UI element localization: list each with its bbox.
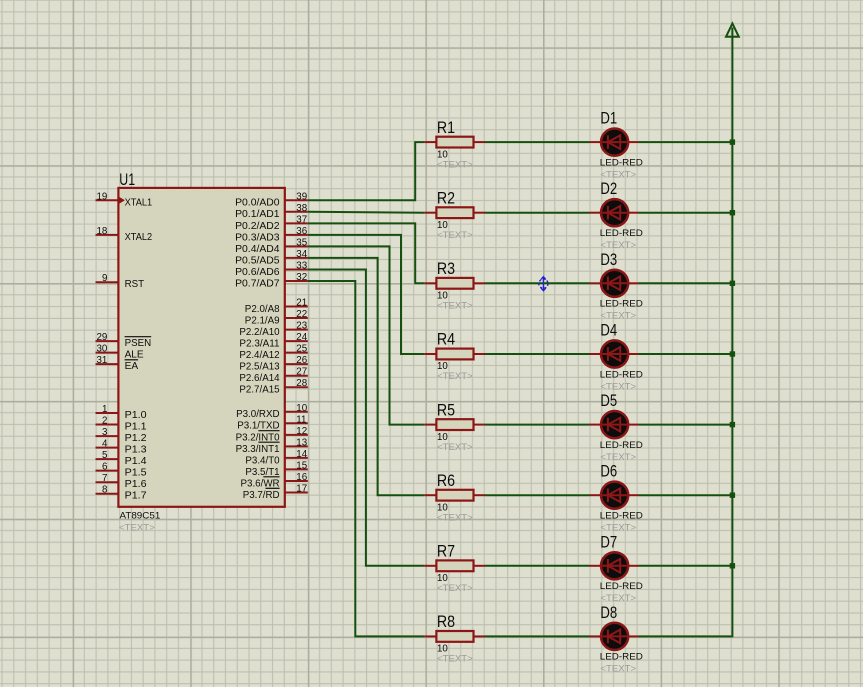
svg-text:P2.4/A12: P2.4/A12: [239, 350, 279, 361]
wire R6 to D6: [485, 494, 590, 496]
junction bus row D6: [730, 493, 735, 498]
svg-text:D7: D7: [600, 533, 617, 551]
resistor R7: [424, 560, 485, 571]
power terminal (VCC arrow): [726, 23, 739, 36]
U1 pin 3 (P1.2) stub: [96, 435, 119, 437]
resistor R6: [424, 490, 485, 501]
svg-text:<TEXT>: <TEXT>: [437, 230, 473, 241]
svg-text:P0.2/AD2: P0.2/AD2: [235, 221, 280, 232]
svg-text:EA: EA: [125, 361, 139, 372]
U1 pin 6 (P1.5) stub: [96, 470, 119, 472]
U1 pin 11 (P3.1/TXD) stub: [285, 422, 308, 424]
wire D6 to power bus: [639, 494, 733, 496]
svg-text:P0.1/AD1: P0.1/AD1: [235, 209, 280, 220]
U1 pin 15 (P3.5/T1) stub: [285, 468, 308, 470]
svg-text:<TEXT>: <TEXT>: [600, 523, 636, 534]
U1 pin 28 (P2.7/A15) stub: [285, 386, 308, 388]
svg-text:26: 26: [296, 355, 307, 366]
overline EA: [125, 359, 139, 361]
U1 pin 37 (P0.2/AD2) stub: [285, 222, 308, 224]
IC U1 AT89C51 body: [118, 188, 284, 507]
svg-text:<TEXT>: <TEXT>: [600, 452, 636, 463]
svg-text:19: 19: [96, 191, 107, 202]
U1 pin 2 (P1.1) stub: [96, 424, 119, 426]
svg-text:<TEXT>: <TEXT>: [437, 159, 473, 170]
svg-text:37: 37: [296, 214, 307, 225]
U1 pin 36 (P0.3/AD3) stub: [285, 234, 308, 236]
svg-text:8: 8: [102, 485, 108, 496]
wire R2 to D2: [485, 212, 590, 214]
svg-text:6: 6: [102, 462, 108, 473]
svg-text:P0.6/AD6: P0.6/AD6: [235, 267, 280, 278]
wire R3 to D3: [485, 282, 590, 284]
svg-text:R7: R7: [437, 543, 455, 561]
overline PSEN: [125, 336, 152, 338]
LED D1: [590, 129, 639, 156]
svg-text:P1.6: P1.6: [125, 479, 147, 490]
U1 pin 30 (ALE) stub: [96, 352, 119, 354]
wire power bus vertical: [639, 28, 733, 637]
svg-text:34: 34: [296, 249, 307, 260]
svg-text:25: 25: [296, 344, 307, 355]
svg-text:P0.0/AD0: P0.0/AD0: [235, 198, 280, 209]
wire P0.4 to R5: [308, 246, 424, 424]
wire D4 to power bus: [639, 353, 733, 355]
svg-text:<TEXT>: <TEXT>: [119, 523, 155, 534]
U1 pin 18 (XTAL2) stub: [96, 234, 119, 236]
LED D6: [590, 482, 639, 509]
svg-text:P3.0/RXD: P3.0/RXD: [236, 409, 280, 420]
svg-text:P3.3/INT1: P3.3/INT1: [236, 444, 280, 455]
wire D1 to power bus: [639, 141, 733, 143]
svg-text:P0.3/AD3: P0.3/AD3: [235, 232, 280, 243]
svg-text:P3.4/T0: P3.4/T0: [245, 455, 279, 466]
wire R1 to D1: [485, 141, 590, 143]
svg-text:13: 13: [296, 437, 307, 448]
svg-text:P1.4: P1.4: [125, 456, 147, 467]
svg-text:P1.5: P1.5: [125, 468, 147, 479]
U1 pin 22 (P2.1/A9) stub: [285, 317, 308, 319]
wire R8 to D8: [485, 635, 590, 637]
LED D8: [590, 623, 639, 650]
svg-text:36: 36: [296, 226, 307, 237]
svg-text:D4: D4: [600, 322, 617, 340]
U1 pin 7 (P1.6) stub: [96, 481, 119, 483]
U1 pin 33 (P0.6/AD6) stub: [285, 269, 308, 271]
svg-text:ALE: ALE: [125, 350, 144, 361]
wire D5 to power bus: [639, 424, 733, 426]
overline RD: [266, 487, 280, 489]
svg-text:R4: R4: [437, 331, 455, 349]
U1 pin 17 (P3.7/RD) stub: [285, 492, 308, 494]
svg-text:P2.0/A8: P2.0/A8: [245, 304, 280, 315]
U1 pin 23 (P2.2/A10) stub: [285, 329, 308, 331]
svg-text:U1: U1: [119, 171, 135, 189]
LED D7: [590, 552, 639, 579]
overline WR: [263, 476, 279, 478]
resistor R5: [424, 419, 485, 430]
svg-text:14: 14: [296, 449, 307, 460]
svg-text:38: 38: [296, 203, 307, 214]
svg-text:LED-RED: LED-RED: [600, 299, 643, 310]
svg-text:P0.7/AD7: P0.7/AD7: [235, 278, 280, 289]
svg-text:D5: D5: [600, 392, 617, 410]
wire P0.7 to R8: [308, 281, 424, 636]
U1 pin 27 (P2.6/A14) stub: [285, 375, 308, 377]
svg-text:R3: R3: [437, 260, 455, 278]
svg-text:16: 16: [296, 472, 307, 483]
svg-text:P1.7: P1.7: [125, 491, 147, 502]
svg-text:15: 15: [296, 460, 307, 471]
svg-text:<TEXT>: <TEXT>: [600, 381, 636, 392]
U1 pin 12 (P3.2/INT0) stub: [285, 434, 308, 436]
U1 pin 5 (P1.4) stub: [96, 458, 119, 460]
resistor R2: [424, 207, 485, 218]
svg-text:P3.1/TXD: P3.1/TXD: [237, 421, 279, 432]
svg-text:D3: D3: [600, 251, 617, 269]
svg-text:LED-RED: LED-RED: [600, 440, 643, 451]
wire R7 to D7: [485, 565, 590, 567]
svg-text:<TEXT>: <TEXT>: [437, 512, 473, 523]
svg-text:<TEXT>: <TEXT>: [600, 240, 636, 251]
svg-text:RST: RST: [125, 279, 145, 290]
svg-text:AT89C51: AT89C51: [120, 510, 161, 521]
svg-text:P1.3: P1.3: [125, 445, 147, 456]
svg-text:P1.0: P1.0: [125, 410, 147, 421]
svg-text:31: 31: [96, 355, 107, 366]
svg-text:<TEXT>: <TEXT>: [600, 664, 636, 675]
svg-text:P2.3/A11: P2.3/A11: [239, 339, 279, 350]
svg-text:LED-RED: LED-RED: [600, 511, 643, 522]
junction bus row D1: [730, 139, 735, 144]
U1 pin 1 (P1.0) stub: [96, 412, 119, 414]
LED D5: [590, 411, 639, 438]
svg-text:P1.1: P1.1: [125, 422, 147, 433]
svg-text:LED-RED: LED-RED: [600, 369, 643, 380]
svg-text:28: 28: [296, 378, 307, 389]
svg-text:2: 2: [102, 416, 107, 427]
U1 pin 14 (P3.4/T0) stub: [285, 457, 308, 459]
svg-text:21: 21: [296, 298, 307, 309]
wire R4 to D4: [485, 353, 590, 355]
U1 pin 24 (P2.3/A11) stub: [285, 340, 308, 342]
svg-text:23: 23: [296, 321, 307, 332]
svg-text:18: 18: [96, 226, 107, 237]
svg-text:10: 10: [296, 403, 307, 414]
wire P0.2 to R3: [308, 223, 424, 283]
wire D7 to power bus: [639, 565, 733, 567]
svg-text:D6: D6: [600, 463, 617, 481]
LED D4: [590, 340, 639, 367]
resistor R1: [424, 137, 485, 148]
svg-text:P2.6/A14: P2.6/A14: [239, 373, 279, 384]
svg-text:P0.5/AD5: P0.5/AD5: [235, 255, 280, 266]
U1 pin 8 (P1.7) stub: [96, 493, 119, 495]
svg-text:<TEXT>: <TEXT>: [600, 311, 636, 322]
svg-text:24: 24: [296, 332, 307, 343]
svg-text:30: 30: [96, 344, 107, 355]
svg-text:<TEXT>: <TEXT>: [437, 301, 473, 312]
svg-text:P0.4/AD4: P0.4/AD4: [235, 244, 280, 255]
overline INT0: [258, 430, 279, 432]
svg-text:11: 11: [296, 414, 306, 425]
wire P0.5 to R6: [308, 258, 424, 495]
U1 pin 19 (XTAL1) stub: [96, 199, 119, 201]
svg-text:P1.2: P1.2: [125, 433, 147, 444]
svg-text:LED-RED: LED-RED: [600, 652, 643, 663]
svg-text:7: 7: [102, 473, 107, 484]
origin marker (blue crosshair): [539, 277, 548, 291]
junction bus row D3: [730, 281, 735, 286]
svg-text:D8: D8: [600, 604, 617, 622]
wire P0.0 to R1: [308, 142, 424, 200]
U1 pin 10 (P3.0/RXD) stub: [285, 411, 308, 413]
svg-text:32: 32: [296, 272, 307, 283]
svg-text:35: 35: [296, 237, 307, 248]
wire D3 to power bus: [639, 282, 733, 284]
svg-text:29: 29: [96, 332, 107, 343]
svg-text:5: 5: [102, 450, 108, 461]
resistor R3: [424, 278, 485, 289]
svg-text:1: 1: [102, 404, 107, 415]
svg-text:R1: R1: [437, 119, 455, 137]
junction bus row D4: [730, 351, 735, 356]
svg-text:P2.2/A10: P2.2/A10: [239, 327, 279, 338]
svg-text:P2.5/A13: P2.5/A13: [239, 362, 279, 373]
U1 pin 31 (EA) stub: [96, 363, 119, 365]
svg-text:P2.7/A15: P2.7/A15: [239, 385, 279, 396]
LED D3: [590, 270, 639, 297]
svg-text:<TEXT>: <TEXT>: [437, 371, 473, 382]
svg-text:17: 17: [296, 484, 307, 495]
U1 pin 9 (RST) stub: [96, 281, 119, 283]
U1 pin 26 (P2.5/A13) stub: [285, 363, 308, 365]
svg-text:XTAL2: XTAL2: [125, 232, 153, 243]
wire R5 to D5: [485, 424, 590, 426]
U1 pin 29 (PSEN) stub: [96, 340, 119, 342]
resistor R4: [424, 349, 485, 360]
U1 pin 13 (P3.3/INT1) stub: [285, 445, 308, 447]
U1 pin 34 (P0.5/AD5) stub: [285, 257, 308, 259]
wire P0.3 to R4: [308, 235, 424, 354]
svg-text:LED-RED: LED-RED: [600, 228, 643, 239]
LED D2: [590, 199, 639, 226]
wire P0.6 to R7: [308, 270, 424, 566]
svg-text:R5: R5: [437, 401, 455, 419]
svg-text:XTAL1: XTAL1: [125, 197, 153, 208]
wire P0.1 to R2: [308, 211, 424, 214]
svg-text:<TEXT>: <TEXT>: [600, 169, 636, 180]
svg-text:R2: R2: [437, 189, 455, 207]
wire D2 to power bus: [639, 212, 733, 214]
XTAL1 clock input arrow marker: [119, 197, 125, 204]
svg-text:<TEXT>: <TEXT>: [437, 583, 473, 594]
U1 pin 39 (P0.0/AD0) stub: [285, 199, 308, 201]
U1 pin 16 (P3.6/WR) stub: [285, 480, 308, 482]
svg-text:39: 39: [296, 191, 307, 202]
svg-text:LED-RED: LED-RED: [600, 157, 643, 168]
svg-text:12: 12: [296, 426, 307, 437]
overline INT1: [258, 441, 279, 443]
U1 pin 32 (P0.7/AD7) stub: [285, 280, 308, 282]
svg-text:<TEXT>: <TEXT>: [600, 593, 636, 604]
resistor R8: [424, 631, 485, 642]
svg-text:P2.1/A9: P2.1/A9: [245, 315, 280, 326]
svg-text:3: 3: [102, 427, 108, 438]
svg-text:P3.5/T1: P3.5/T1: [245, 467, 279, 478]
svg-text:<TEXT>: <TEXT>: [437, 442, 473, 453]
svg-text:4: 4: [102, 439, 108, 450]
junction bus row D2: [730, 210, 735, 215]
svg-text:33: 33: [296, 261, 307, 272]
svg-text:D2: D2: [600, 180, 617, 198]
U1 pin 25 (P2.4/A12) stub: [285, 352, 308, 354]
svg-text:PSEN: PSEN: [125, 338, 152, 349]
U1 pin 35 (P0.4/AD4) stub: [285, 245, 308, 247]
svg-text:R6: R6: [437, 472, 455, 490]
junction bus row D7: [730, 563, 735, 568]
U1 pin 21 (P2.0/A8) stub: [285, 306, 308, 308]
svg-text:22: 22: [296, 309, 307, 320]
U1 pin 38 (P0.1/AD1) stub: [285, 211, 308, 213]
junction bus row D5: [730, 422, 735, 427]
svg-text:P3.7/RD: P3.7/RD: [243, 490, 280, 501]
svg-text:D1: D1: [600, 110, 617, 128]
svg-text:27: 27: [296, 367, 307, 378]
svg-text:R8: R8: [437, 613, 455, 631]
svg-text:9: 9: [102, 273, 107, 284]
svg-text:LED-RED: LED-RED: [600, 581, 643, 592]
svg-text:<TEXT>: <TEXT>: [437, 654, 473, 665]
U1 pin 4 (P1.3) stub: [96, 447, 119, 449]
